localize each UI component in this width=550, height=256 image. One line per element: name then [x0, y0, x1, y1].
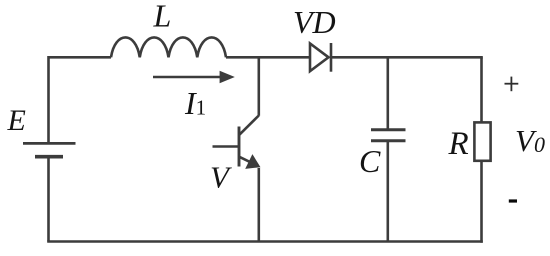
wire capacitor branch lower	[386, 141, 389, 242]
wire top-left segment (source to inductor)	[49, 56, 112, 59]
wire right side lower (resistor to bottom)	[480, 162, 483, 243]
svg-text:I1: I1	[184, 85, 206, 121]
svg-text:C: C	[359, 143, 381, 179]
label plus	[505, 77, 519, 92]
inductor L	[111, 37, 226, 57]
label minus	[509, 199, 517, 202]
wire transistor collector branch (top wire down)	[257, 57, 260, 116]
wire right side upper (to resistor)	[480, 57, 483, 121]
current arrow I1	[153, 71, 235, 84]
svg-text:E: E	[7, 104, 26, 137]
svg-text:L: L	[153, 0, 172, 34]
battery E	[23, 143, 76, 156]
svg-text:VD: VD	[293, 4, 336, 40]
svg-text:V0: V0	[515, 123, 545, 158]
diode VD	[310, 43, 331, 72]
wire top middle segment (inductor to diode anode)	[226, 56, 310, 59]
wire bottom	[47, 240, 483, 243]
svg-text:R: R	[448, 126, 469, 162]
wire capacitor branch upper	[386, 57, 389, 130]
wire left upper (top to battery)	[47, 56, 50, 143]
transistor V (NPN)	[213, 116, 261, 169]
wire left lower (battery to bottom)	[47, 157, 50, 242]
capacitor C (plates)	[371, 130, 406, 141]
resistor R (box)	[474, 122, 490, 160]
wire top-right segment (diode cathode to output node)	[331, 56, 483, 59]
wire transistor emitter branch (down to bottom wire)	[257, 168, 260, 242]
svg-text:V: V	[210, 160, 232, 195]
